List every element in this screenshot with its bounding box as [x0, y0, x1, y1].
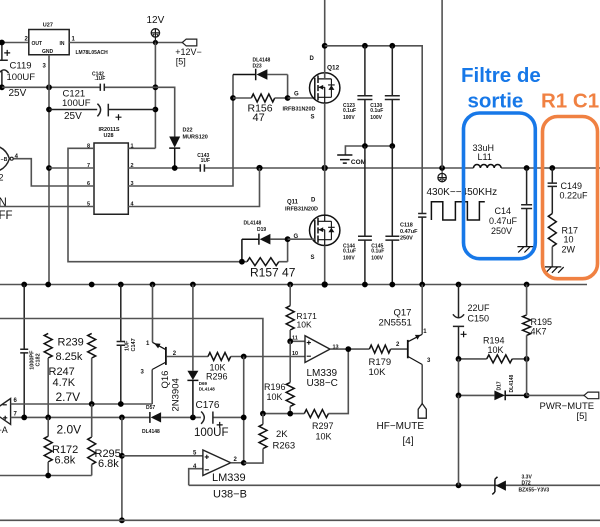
- svg-text:R196: R196: [264, 382, 286, 392]
- svg-text:100V: 100V: [343, 115, 355, 121]
- svg-text:0.22uF: 0.22uF: [560, 191, 589, 201]
- svg-text:IR2011S: IR2011S: [99, 127, 120, 133]
- svg-text:R263: R263: [273, 441, 296, 452]
- capacitor C121: [49, 104, 155, 117]
- wire U28 pin7 to U27 gnd: [49, 167, 94, 169]
- svg-text:R194: R194: [483, 336, 505, 346]
- wire U28 pin6 to gate U-B: [13, 159, 94, 186]
- resistor R297: [304, 410, 328, 418]
- resistor R239: [88, 333, 96, 358]
- wire C119 to U27 pin2: [2, 42, 29, 44]
- svg-text:0.1uF: 0.1uF: [370, 108, 383, 114]
- wire Q12 source to Q11 drain: [324, 103, 326, 215]
- resistor R295: [88, 437, 96, 464]
- wire opamp A minus line: [11, 403, 153, 405]
- diode D23: [233, 69, 256, 80]
- svg-text:D19: D19: [257, 227, 266, 233]
- wire U27 output to 12V node: [69, 42, 182, 44]
- svg-text:L11: L11: [478, 152, 492, 162]
- svg-text:R247: R247: [49, 366, 75, 378]
- wire U38-B plus line: [122, 455, 203, 457]
- capacitor C147: [117, 285, 125, 405]
- transistor Q11: [310, 215, 340, 245]
- annotation box R1 C1: [543, 117, 598, 279]
- svg-text:0.47uF: 0.47uF: [400, 229, 418, 235]
- wire opamp A plus line: [11, 416, 244, 418]
- svg-text:C147: C147: [131, 338, 137, 351]
- svg-text:1UF: 1UF: [201, 158, 210, 164]
- diode D17: [459, 394, 495, 396]
- svg-text:GND: GND: [42, 49, 54, 55]
- wire Q16 base line: [167, 356, 306, 358]
- wire U38-B output: [231, 462, 244, 464]
- svg-text:S: S: [311, 115, 315, 121]
- wire C150 node down: [458, 359, 460, 396]
- svg-text:BZX55−Y3V3: BZX55−Y3V3: [519, 487, 550, 493]
- svg-text:8.25k: 8.25k: [56, 351, 83, 363]
- svg-text:3.3V: 3.3V: [522, 474, 533, 480]
- transistor Q12: [310, 73, 340, 103]
- wire 12V rail down to U28 pin1: [154, 43, 156, 149]
- ground chassis R17: [545, 267, 564, 273]
- svg-text:C14: C14: [495, 206, 512, 216]
- svg-text:25V: 25V: [9, 88, 27, 99]
- wire U27 GND down: [48, 55, 50, 285]
- ground COM: [337, 155, 352, 163]
- svg-text:D: D: [311, 198, 316, 204]
- svg-text:250V: 250V: [400, 236, 413, 242]
- svg-text:OUT: OUT: [32, 41, 43, 47]
- svg-text:DL4148: DL4148: [142, 429, 160, 435]
- opamp U38-B: [203, 450, 231, 476]
- connector PWR-MUTE: [584, 392, 599, 399]
- wire U28 pin3 up to D23: [128, 75, 233, 187]
- svg-text:R297: R297: [312, 421, 334, 431]
- opamp U38-C: [305, 336, 330, 363]
- wire to PWR-MUTE: [527, 394, 584, 396]
- svg-text:IRFB31N20D: IRFB31N20D: [285, 207, 318, 213]
- svg-text:100UF: 100UF: [62, 98, 91, 109]
- wire switching node line: [128, 167, 600, 169]
- svg-text:4K7: 4K7: [531, 327, 547, 337]
- wire drive mid line: [0, 319, 263, 414]
- diode D19: [242, 234, 259, 262]
- opamp U38-A (clipped): [0, 399, 11, 425]
- svg-text:C176: C176: [196, 400, 220, 411]
- capacitor C123: [357, 46, 372, 146]
- svg-text:FF: FF: [0, 210, 13, 222]
- svg-text:DL4148: DL4148: [199, 387, 216, 392]
- svg-text:C118: C118: [400, 222, 413, 228]
- resistor R179: [369, 345, 390, 353]
- svg-text:MURS120: MURS120: [183, 134, 208, 140]
- svg-text:12V: 12V: [147, 15, 165, 26]
- svg-text:D72: D72: [522, 481, 531, 487]
- svg-text:C150: C150: [468, 313, 490, 323]
- svg-text:02: 02: [0, 173, 4, 183]
- svg-text:U27: U27: [43, 23, 53, 29]
- svg-text:10K: 10K: [316, 432, 332, 442]
- connector HF-MUTE: [418, 404, 426, 419]
- resistor R156: [251, 94, 274, 102]
- svg-text:IRFB31N20D: IRFB31N20D: [283, 107, 316, 113]
- svg-text:100V: 100V: [371, 255, 383, 261]
- diode D69: [192, 285, 194, 371]
- svg-text:100V: 100V: [370, 115, 382, 121]
- capacitor C14: [521, 168, 532, 247]
- resistor R17: [548, 214, 556, 247]
- wire U38-C output: [330, 348, 369, 350]
- annotation box Filtre de sortie: [464, 113, 536, 259]
- resistor R157: [247, 258, 279, 266]
- svg-text:10: 10: [292, 351, 298, 357]
- capacitor C182: [20, 285, 28, 418]
- svg-text:D69: D69: [199, 381, 208, 386]
- zener D72: [492, 477, 497, 495]
- svg-text:R195: R195: [531, 317, 553, 327]
- capacitor C119: [0, 43, 9, 88]
- transistor Q17: [407, 340, 409, 358]
- svg-text:U38−B: U38−B: [213, 489, 247, 501]
- svg-text:Q11: Q11: [287, 200, 299, 206]
- svg-text:D17: D17: [497, 381, 503, 390]
- wire Q11 gate: [288, 238, 315, 240]
- svg-text:C182: C182: [36, 353, 42, 366]
- wire C150 lower leg: [458, 395, 460, 485]
- svg-text:U28: U28: [104, 133, 114, 139]
- resistor R172: [44, 436, 52, 462]
- resistor R195: [523, 315, 531, 336]
- svg-text:0.1uF: 0.1uF: [343, 108, 356, 114]
- capacitor C149: [548, 168, 557, 214]
- gate U38-B inverter (clipped): [0, 147, 9, 171]
- wire U38-B minus hook: [189, 469, 203, 486]
- inductor L11: [473, 165, 501, 168]
- wire Q17 collector down: [421, 365, 423, 404]
- svg-text:250V: 250V: [491, 226, 512, 236]
- svg-text:[4]: [4]: [403, 436, 414, 447]
- resistor R196: [286, 382, 294, 406]
- resistor R263: [259, 424, 267, 448]
- wire U28 pin5 left: [0, 206, 94, 208]
- svg-text:6.8k: 6.8k: [55, 455, 76, 467]
- wire Q11 source to rail: [324, 246, 326, 285]
- svg-text:G: G: [294, 92, 299, 98]
- wire pin5 node vertical: [121, 417, 123, 520]
- wire switch node sense from top: [441, 0, 443, 168]
- capacitor C142: [100, 84, 104, 91]
- capacitor C144: [358, 146, 372, 285]
- wire U28 pin8 to R157 node: [68, 148, 242, 261]
- capacitor C145: [385, 146, 399, 285]
- svg-text:S: S: [311, 255, 315, 261]
- capacitor C176: [201, 412, 213, 424]
- svg-text:D57: D57: [146, 405, 155, 411]
- svg-text:6.8k: 6.8k: [98, 458, 119, 470]
- transistor Q16: [165, 347, 167, 365]
- regulator U27: [29, 30, 69, 55]
- svg-text:D23: D23: [253, 64, 262, 70]
- svg-text:10K: 10K: [297, 320, 312, 330]
- wire COM link: [345, 146, 392, 155]
- svg-text:2N3904: 2N3904: [171, 378, 182, 411]
- svg-text:C119: C119: [10, 60, 32, 71]
- svg-text:R296: R296: [206, 372, 228, 382]
- ic U28 IR2011S: [94, 143, 128, 214]
- resistor R247: [44, 333, 52, 358]
- resistor R296: [208, 353, 231, 361]
- wire ground rail: [0, 284, 587, 286]
- svg-text:[5]: [5]: [577, 411, 588, 422]
- svg-text:−B: −B: [1, 157, 8, 163]
- svg-text:100UF: 100UF: [194, 427, 229, 439]
- svg-text:LM78L05ACH: LM78L05ACH: [76, 50, 109, 56]
- wire R296 node vertical: [243, 357, 245, 463]
- capacitor C130: [385, 46, 400, 146]
- svg-text:25V: 25V: [64, 111, 82, 122]
- ground chassis C14: [517, 247, 536, 253]
- svg-text:sortie: sortie: [468, 90, 524, 113]
- svg-text:Q12: Q12: [327, 64, 340, 71]
- svg-text:0.1uF: 0.1uF: [343, 249, 356, 255]
- wire Q12 gate: [288, 97, 315, 99]
- svg-text:2N5551: 2N5551: [379, 317, 412, 328]
- diode D57: [149, 412, 151, 423]
- wire U28 pin4 to switch node: [128, 168, 259, 207]
- wire mute bus: [189, 484, 600, 486]
- wire bottom rail: [0, 519, 600, 521]
- capacitor C118: [418, 214, 426, 285]
- svg-text:.1UF: .1UF: [95, 76, 106, 82]
- svg-text:10K: 10K: [369, 367, 387, 378]
- power 12V: [151, 29, 159, 37]
- svg-text:100V: 100V: [343, 255, 355, 261]
- svg-text:1UF: 1UF: [125, 340, 131, 351]
- svg-text:10: 10: [564, 235, 574, 245]
- svg-text:2.7V: 2.7V: [56, 390, 81, 404]
- capacitor C143: [200, 164, 204, 172]
- wire Q17 emitter up: [421, 285, 423, 335]
- wire bottom left link: [0, 475, 92, 477]
- svg-text:LM339: LM339: [212, 472, 246, 484]
- svg-text:0.1uF: 0.1uF: [371, 249, 384, 255]
- wire feedback line: [263, 349, 348, 414]
- test point: [441, 168, 443, 173]
- svg-text:D: D: [310, 56, 315, 62]
- wire HV top rail: [325, 46, 423, 214]
- svg-text:R239: R239: [58, 336, 84, 348]
- svg-text:−A: −A: [0, 425, 8, 435]
- svg-text:22UF: 22UF: [468, 303, 491, 313]
- wire Q16 emitter from rail: [152, 285, 154, 343]
- svg-text:C149: C149: [561, 181, 583, 191]
- connector +12V [5]: [182, 39, 197, 46]
- svg-text:100UF: 100UF: [7, 72, 36, 83]
- svg-text:R157 47: R157 47: [250, 266, 296, 280]
- svg-text:10K: 10K: [267, 392, 283, 402]
- svg-text:2.0V: 2.0V: [57, 422, 82, 436]
- wire Q16 collector: [151, 370, 153, 405]
- svg-text:11: 11: [292, 335, 298, 341]
- svg-text:COM: COM: [351, 159, 366, 166]
- diode D22: [155, 87, 174, 136]
- svg-text:DL4148: DL4148: [244, 221, 262, 227]
- resistor R194: [459, 358, 527, 360]
- wire U38-C plus line: [290, 340, 305, 342]
- svg-text:U38−C: U38−C: [307, 378, 338, 389]
- svg-text:IN: IN: [60, 41, 65, 47]
- svg-text:Q16: Q16: [160, 371, 171, 389]
- wire C119 ground line: [2, 86, 156, 88]
- svg-text:R1 C1: R1 C1: [541, 90, 599, 113]
- wire U28 pin1 to 12V: [128, 147, 155, 149]
- capacitor C150: [453, 285, 464, 359]
- svg-text:HF−MUTE: HF−MUTE: [377, 421, 425, 432]
- wire HV rail from top: [324, 0, 326, 79]
- svg-text:10K: 10K: [488, 345, 504, 355]
- svg-text:2W: 2W: [562, 244, 576, 254]
- svg-text:47: 47: [253, 112, 265, 124]
- svg-text:D22: D22: [183, 128, 193, 134]
- svg-text:0.47uF: 0.47uF: [489, 216, 518, 226]
- svg-text:[5]: [5]: [176, 57, 186, 67]
- resistor R171: [289, 285, 291, 306]
- svg-text:DL4148: DL4148: [509, 374, 515, 392]
- svg-text:2K: 2K: [276, 429, 288, 440]
- svg-text:4.7K: 4.7K: [53, 377, 76, 389]
- svg-text:Filtre de: Filtre de: [461, 64, 541, 87]
